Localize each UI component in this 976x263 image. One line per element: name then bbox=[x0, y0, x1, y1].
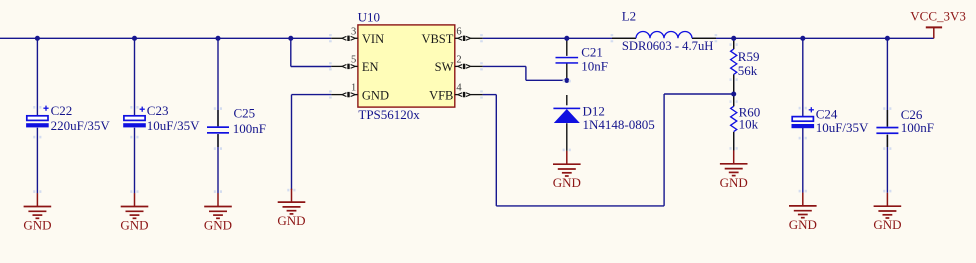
svg-text:GND: GND bbox=[120, 218, 148, 233]
svg-text:L2: L2 bbox=[622, 9, 636, 24]
svg-text:C21: C21 bbox=[581, 44, 603, 59]
svg-text:56k: 56k bbox=[738, 63, 758, 78]
svg-text:5: 5 bbox=[351, 55, 356, 66]
svg-text:3: 3 bbox=[351, 26, 356, 37]
svg-text:VFB: VFB bbox=[429, 88, 453, 102]
svg-text:GND: GND bbox=[362, 88, 389, 102]
svg-text:GND: GND bbox=[873, 217, 901, 232]
svg-text:1: 1 bbox=[351, 83, 356, 94]
svg-text:10uF/35V: 10uF/35V bbox=[147, 118, 200, 133]
svg-text:GND: GND bbox=[720, 175, 748, 190]
svg-text:C25: C25 bbox=[234, 105, 256, 120]
svg-text:GND: GND bbox=[553, 175, 581, 190]
svg-text:R59: R59 bbox=[738, 49, 760, 64]
svg-text:VIN: VIN bbox=[362, 32, 384, 46]
svg-text:10k: 10k bbox=[739, 117, 759, 132]
svg-text:C22: C22 bbox=[51, 103, 73, 118]
svg-text:1N4148-0805: 1N4148-0805 bbox=[583, 117, 655, 132]
svg-text:GND: GND bbox=[789, 217, 817, 232]
svg-text:100nF: 100nF bbox=[233, 121, 266, 136]
svg-text:6: 6 bbox=[456, 26, 461, 37]
svg-text:U10: U10 bbox=[358, 9, 380, 24]
svg-text:GND: GND bbox=[204, 218, 232, 233]
svg-text:10nF: 10nF bbox=[581, 59, 608, 74]
svg-text:VCC_3V3: VCC_3V3 bbox=[910, 8, 966, 23]
svg-text:4: 4 bbox=[456, 83, 462, 94]
svg-text:GND: GND bbox=[23, 218, 51, 233]
svg-text:100nF: 100nF bbox=[901, 120, 934, 135]
svg-text:SDR0603 - 4.7uH: SDR0603 - 4.7uH bbox=[622, 38, 714, 53]
svg-text:GND: GND bbox=[277, 213, 305, 228]
svg-text:2: 2 bbox=[456, 55, 461, 66]
svg-text:TPS56120x: TPS56120x bbox=[358, 107, 420, 122]
svg-text:SW: SW bbox=[435, 60, 454, 74]
svg-text:10uF/35V: 10uF/35V bbox=[816, 120, 869, 135]
svg-text:VBST: VBST bbox=[421, 32, 453, 46]
svg-text:C23: C23 bbox=[147, 103, 169, 118]
svg-text:EN: EN bbox=[362, 60, 379, 74]
svg-text:220uF/35V: 220uF/35V bbox=[51, 118, 111, 133]
